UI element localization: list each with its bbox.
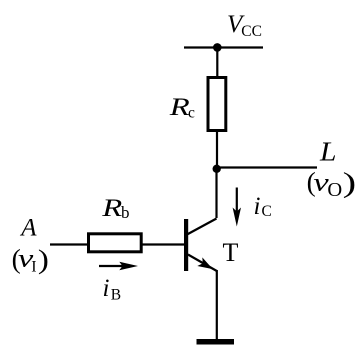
wire Vcc to Rc — [216, 48, 218, 78]
transistor T emitter diagonal — [188, 255, 217, 272]
svg-text:c: c — [188, 105, 195, 122]
transistor T collector diagonal — [187, 219, 217, 235]
svg-text:CC: CC — [241, 23, 262, 40]
arrow iB — [99, 265, 125, 267]
transistor T base bar — [184, 219, 188, 271]
svg-text:T: T — [223, 238, 239, 267]
ground — [197, 339, 235, 345]
wire Rb to base — [142, 243, 185, 245]
power rail Vcc — [184, 46, 263, 48]
resistor Rc — [208, 78, 226, 131]
wire emitter vertical — [216, 270, 218, 341]
svg-text:L: L — [319, 137, 337, 167]
node collector junction dot — [213, 165, 221, 173]
svg-text:I: I — [31, 259, 36, 276]
node Vcc junction dot — [213, 43, 222, 52]
wire output to L — [217, 166, 317, 168]
svg-text:): ) — [38, 244, 49, 275]
svg-text:b: b — [121, 203, 130, 222]
resistor Rb — [89, 234, 142, 252]
svg-text:C: C — [262, 203, 272, 220]
wire collector vertical — [215, 168, 217, 218]
svg-text:O: O — [327, 179, 342, 201]
svg-text:A: A — [19, 215, 37, 242]
svg-text:B: B — [111, 287, 121, 304]
svg-text:R: R — [101, 195, 122, 222]
svg-text:): ) — [343, 167, 355, 199]
arrow iC — [236, 188, 238, 213]
transistor T emitter arrow — [197, 257, 213, 269]
wire input A — [50, 243, 88, 245]
wire Rc to collector node — [216, 132, 218, 170]
svg-text:i: i — [254, 193, 261, 220]
svg-text:R: R — [168, 94, 189, 121]
svg-text:i: i — [103, 275, 110, 302]
